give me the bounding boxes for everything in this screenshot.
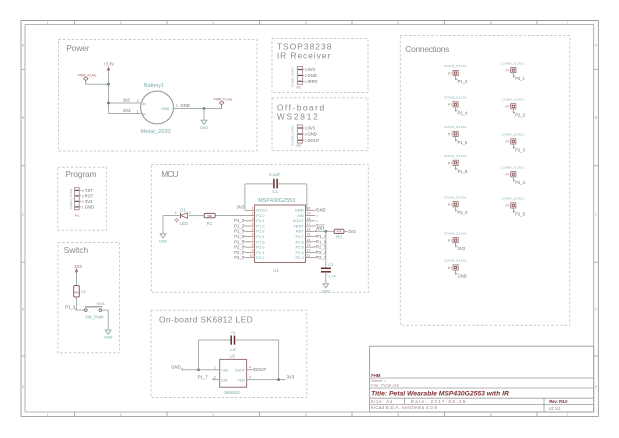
svg-text:XIN: XIN: [297, 213, 304, 218]
svg-text:RST: RST: [296, 229, 305, 234]
pin 9 U1 (P2.1): [245, 251, 255, 253]
svg-text:CONN_01X03: CONN_01X03: [291, 67, 295, 87]
wire P1.0 to R1: [215, 215, 245, 217]
svg-text:P2_2: P2_2: [515, 112, 525, 117]
svg-text:GND: GND: [295, 208, 304, 213]
svg-text:R1: R1: [207, 221, 213, 226]
op-amp U1 MSP430G2553: [255, 205, 306, 263]
svg-text:3: 3: [82, 195, 84, 199]
svg-text:P1.4: P1.4: [256, 234, 265, 239]
wire PWR_FLAG to +3.3V node: [86, 83, 109, 85]
svg-text:CONN_01X01: CONN_01X01: [502, 165, 525, 169]
pin 3 pad: [75, 195, 79, 197]
svg-text:C2: C2: [328, 262, 334, 267]
net label P1_7: [315, 235, 317, 237]
junction GND node: [203, 107, 206, 110]
wire to switch: [77, 309, 85, 311]
svg-text:6: 6: [490, 21, 492, 25]
section box On-board SK6812 LED: [151, 310, 307, 397]
svg-text:330: 330: [207, 214, 212, 218]
svg-text:DOUT: DOUT: [235, 368, 246, 372]
svg-text:2: 2: [120, 413, 122, 417]
svg-text:P1_2: P1_2: [234, 223, 244, 228]
svg-text:3V3: 3V3: [308, 126, 316, 131]
svg-text:1: 1: [137, 109, 139, 113]
svg-text:P2_3: P2_3: [515, 147, 525, 152]
svg-text:P1_7: P1_7: [316, 234, 326, 239]
svg-text:IR Receiver: IR Receiver: [277, 51, 331, 61]
pin 6 U1 (P1.4): [245, 236, 255, 238]
svg-text:+3.3V: +3.3V: [103, 61, 114, 66]
svg-text:GND: GND: [104, 336, 113, 340]
svg-text:P2_0: P2_0: [234, 245, 244, 250]
pin 1 stub P2_4: [512, 177, 514, 182]
junction +3.3V node: [107, 83, 110, 86]
svg-text:4: 4: [249, 366, 251, 370]
svg-text:DOUT: DOUT: [254, 367, 266, 372]
svg-text:CONN_01X01: CONN_01X01: [444, 64, 467, 68]
wire DVCC riser: [244, 184, 246, 210]
pin 1 pad: [298, 139, 302, 141]
pin 4 stub U2: [247, 369, 253, 371]
pin 10 U1 (P2.2): [245, 257, 255, 259]
wire C3 left riser: [198, 340, 200, 370]
svg-text:Connections: Connections: [405, 44, 449, 54]
net label P2_5: [513, 211, 515, 213]
pin 5 U1 (P1.3): [245, 230, 255, 232]
svg-text:4: 4: [305, 21, 307, 25]
svg-text:3V3: 3V3: [74, 264, 82, 269]
svg-text:IRRX: IRRX: [308, 79, 318, 84]
svg-text:GND: GND: [316, 208, 325, 213]
svg-text:P2_4: P2_4: [316, 250, 326, 255]
svg-text:12: 12: [307, 248, 311, 252]
svg-text:Size: A4: Size: A4: [371, 399, 393, 404]
pin 8 U1 (P2.0): [245, 246, 255, 248]
net label GND: [456, 273, 458, 275]
transistor U2 SK6812: [220, 359, 247, 387]
svg-text:3: 3: [249, 375, 251, 379]
svg-text:DOUT: DOUT: [308, 138, 320, 143]
svg-text:TST: TST: [85, 188, 93, 193]
pin 2 U1 (P1.0): [245, 215, 255, 217]
ground: [201, 120, 207, 124]
net label P2_3: [315, 256, 317, 258]
svg-text:3V3: 3V3: [85, 199, 93, 204]
net label P1_6: [456, 168, 458, 170]
svg-text:P?: P?: [448, 133, 452, 137]
svg-text:Date: 2017-06-25: Date: 2017-06-25: [411, 399, 467, 404]
pin 1 stub P2_0: [455, 207, 457, 212]
pin 13 U1 (P2.5): [306, 246, 316, 248]
svg-text:P1_3: P1_3: [234, 229, 244, 234]
svg-text:3: 3: [252, 217, 254, 221]
svg-text:P1_1: P1_1: [234, 218, 244, 223]
svg-text:P1.2: P1.2: [256, 223, 265, 228]
svg-text:CONN_01X01: CONN_01X01: [444, 231, 467, 235]
svg-text:2: 2: [252, 212, 254, 216]
svg-text:3: 3: [212, 413, 214, 417]
svg-text:P?: P?: [506, 204, 510, 208]
svg-text:3V3: 3V3: [308, 67, 316, 72]
capacitor C2 1nF: [321, 267, 331, 269]
svg-text:RST: RST: [316, 226, 325, 231]
svg-text:DVCC: DVCC: [256, 208, 267, 213]
svg-text:P3: P3: [297, 144, 301, 148]
svg-text:P2.0: P2.0: [256, 245, 265, 250]
svg-text:P?: P?: [448, 266, 452, 270]
svg-text:14: 14: [307, 238, 311, 242]
resistor R1 330: [204, 213, 215, 217]
net label RST: [315, 230, 317, 232]
svg-text:5: 5: [252, 227, 254, 231]
svg-text:P?: P?: [506, 105, 510, 109]
svg-text:File: Petal.sch: File: Petal.sch: [371, 383, 399, 388]
svg-text:PWR_FLAG: PWR_FLAG: [78, 74, 97, 78]
pin 12 U1 (P2.4): [306, 251, 316, 253]
pin 11 U1 (P2.3): [306, 257, 316, 259]
svg-text:1uF: 1uF: [229, 347, 236, 352]
net label 3V3: [456, 246, 458, 248]
net label P2_1: [243, 251, 245, 253]
wire R3 to 3V3: [344, 230, 348, 232]
net label P1_1: [243, 219, 245, 221]
svg-text:Metal_2032: Metal_2032: [141, 129, 172, 135]
svg-text:4: 4: [252, 222, 254, 226]
svg-text:P2_3: P2_3: [316, 255, 326, 260]
svg-text:CONN_01X01: CONN_01X01: [444, 96, 467, 100]
svg-text:MSP430G2553: MSP430G2553: [258, 198, 295, 204]
svg-text:15: 15: [307, 233, 311, 237]
pin 15 U1 (P1.7): [306, 236, 316, 238]
wire R1 to LED: [189, 215, 204, 217]
wire RST to C2: [325, 231, 327, 267]
pin 1 stub GND: [455, 270, 457, 275]
svg-text:On-board SK6812 LED: On-board SK6812 LED: [159, 315, 253, 325]
pin 2 pad: [298, 133, 302, 135]
net label P1_4: [456, 110, 458, 112]
svg-text:2: 2: [189, 211, 191, 215]
pin 1 stub P1_5: [455, 137, 457, 142]
svg-text:P2_5: P2_5: [316, 245, 326, 250]
svg-text:P1.7: P1.7: [295, 234, 304, 239]
pin 4 pad: [75, 189, 79, 191]
pin 2 stub: [303, 74, 305, 76]
svg-text:P?: P?: [506, 69, 510, 73]
resistor R3 47k: [334, 229, 344, 233]
svg-text:P1.3: P1.3: [256, 229, 265, 234]
pin 1 pad: [75, 206, 79, 208]
svg-text:CONN_01X01: CONN_01X01: [502, 133, 525, 137]
svg-text:P?: P?: [448, 203, 452, 207]
section box MCU: [151, 165, 368, 293]
svg-text:×: ×: [316, 214, 318, 218]
svg-text:13: 13: [307, 243, 311, 247]
svg-text:Switch: Switch: [64, 245, 89, 255]
svg-text:LED: LED: [180, 221, 188, 226]
wire GND to U2 pin1: [181, 369, 220, 371]
svg-text:8: 8: [252, 243, 254, 247]
svg-text:P?: P?: [506, 140, 510, 144]
net label P1_6: [315, 240, 317, 242]
svg-text:P2_1: P2_1: [515, 76, 525, 81]
pin 2 stub: [303, 133, 305, 135]
ground: [323, 284, 329, 288]
wire P1_7 to U2 pin2: [213, 379, 220, 381]
pin 2 pad: [75, 200, 79, 202]
wire LED to ground: [163, 215, 179, 217]
svg-text:P1_5: P1_5: [458, 140, 468, 145]
section box Program: [58, 167, 107, 230]
pin 14 U1 (P1.6): [306, 241, 316, 243]
pin 3 stub: [303, 69, 305, 71]
svg-text:Id: 1/1: Id: 1/1: [549, 406, 561, 411]
svg-text:P1_4: P1_4: [234, 234, 244, 239]
svg-text:GND: GND: [308, 73, 317, 78]
ground: [160, 234, 166, 238]
pin 7 U1 (P1.5): [245, 241, 255, 243]
svg-text:9: 9: [252, 248, 254, 252]
svg-text:1: 1: [82, 206, 84, 210]
pin 1 stub P2_3: [512, 144, 514, 149]
svg-text:R2: R2: [81, 290, 86, 294]
wire C3 right riser: [235, 339, 278, 341]
svg-text:CONN_01X03: CONN_01X03: [291, 125, 295, 145]
svg-text:P2_2: P2_2: [234, 255, 244, 260]
wire battery pin 3 GND: [173, 108, 221, 110]
svg-text:GND: GND: [181, 103, 190, 108]
svg-text:CONN_01X01: CONN_01X01: [502, 197, 525, 201]
svg-text:GND: GND: [308, 132, 317, 137]
svg-text:4: 4: [82, 189, 84, 193]
svg-text:P2_1: P2_1: [234, 250, 244, 255]
wire to battery pin 2: [109, 102, 141, 104]
wire RST: [315, 230, 334, 232]
pin 1 stub P1_2: [455, 76, 457, 81]
svg-text:P1.1: P1.1: [256, 218, 265, 223]
pin 3 pad: [298, 69, 302, 71]
pin 20 U1 (GND): [306, 209, 316, 211]
svg-text:3v: 3v: [142, 113, 146, 117]
wire vertical to battery pins: [108, 84, 110, 113]
svg-text:1 nF: 1 nF: [328, 274, 337, 279]
svg-text:6: 6: [490, 413, 492, 417]
svg-text:P1.0: P1.0: [256, 213, 265, 218]
net label DOUT: [253, 368, 255, 370]
svg-text:P2_5: P2_5: [515, 211, 525, 216]
svg-text:SK6812: SK6812: [224, 390, 240, 395]
pin 1 stub P1_4: [455, 107, 457, 112]
section box Switch: [58, 243, 120, 353]
svg-text:Battery1: Battery1: [144, 83, 164, 89]
svg-text:P2.3: P2.3: [295, 255, 304, 260]
svg-text:VSS: VSS: [221, 368, 229, 372]
svg-text:MCU: MCU: [161, 169, 178, 179]
net label P2_3: [513, 147, 515, 149]
svg-text:P1_4: P1_4: [458, 110, 468, 115]
net label P2_5: [315, 246, 317, 248]
net label P2_0: [243, 246, 245, 248]
svg-text:P?: P?: [448, 162, 452, 166]
svg-text:P?: P?: [448, 103, 452, 107]
svg-text:TEST: TEST: [293, 223, 304, 228]
svg-text:3V3: 3V3: [458, 246, 466, 251]
svg-text:P1_3: P1_3: [65, 305, 75, 310]
net label P1_3: [75, 308, 77, 310]
svg-text:P2: P2: [297, 85, 301, 89]
svg-text:7: 7: [567, 413, 569, 417]
svg-text:P1_5: P1_5: [234, 239, 244, 244]
svg-text:C1: C1: [272, 189, 278, 194]
svg-text:P2.1: P2.1: [256, 250, 265, 255]
svg-text:CONN_01X04: CONN_01X04: [69, 189, 73, 209]
net label P2_1: [513, 76, 515, 78]
svg-text:10: 10: [250, 254, 254, 258]
svg-text:Power: Power: [66, 43, 90, 53]
svg-text:WS2812: WS2812: [277, 111, 320, 121]
section box Power: [59, 40, 258, 152]
net label GND: [315, 209, 317, 211]
svg-text:Title: Petal Wearable MSP430G2: Title: Petal Wearable MSP430G2553 with I…: [371, 390, 509, 397]
net label P2_2: [243, 256, 245, 258]
svg-text:5: 5: [397, 413, 399, 417]
svg-text:CONN_01X01: CONN_01X01: [502, 61, 525, 65]
svg-text:GND: GND: [85, 205, 94, 210]
svg-text:0.1uF: 0.1uF: [269, 172, 281, 177]
net label P2_4: [315, 251, 317, 253]
svg-text:PWR_FLAG: PWR_FLAG: [214, 97, 233, 101]
title block: [370, 346, 594, 412]
wire 3V3 to R2: [76, 274, 78, 286]
svg-text:P2.5: P2.5: [295, 245, 304, 250]
svg-text:4: 4: [305, 413, 307, 417]
svg-text:6: 6: [252, 233, 254, 237]
pin 2 stub: [79, 200, 81, 202]
svg-text:U2: U2: [230, 353, 236, 358]
svg-text:2: 2: [214, 375, 216, 379]
svg-text:C3: C3: [230, 330, 236, 335]
junction battery branch: [107, 102, 110, 105]
wire resistor to switch node: [76, 297, 78, 310]
pin 17 U1 (TEST): [306, 225, 316, 227]
svg-text:Program: Program: [65, 169, 96, 179]
svg-text:3: 3: [176, 104, 178, 108]
svg-text:×: ×: [316, 219, 318, 223]
net label P2_0: [456, 210, 458, 212]
svg-text:P2.4: P2.4: [295, 250, 304, 255]
svg-text:7: 7: [567, 21, 569, 25]
svg-text:VDD: VDD: [238, 378, 246, 382]
svg-text:20: 20: [307, 206, 311, 210]
wire switch to ground: [102, 309, 109, 311]
pin 4 stub: [79, 189, 81, 191]
pin 1 U1 (DVCC): [245, 209, 255, 211]
pin 3 stub: [79, 195, 81, 197]
svg-text:GND: GND: [322, 289, 331, 293]
svg-text:3: 3: [212, 21, 214, 25]
pin 2 pad: [298, 74, 302, 76]
svg-text:47k: 47k: [337, 230, 342, 234]
net label P1_2: [243, 224, 245, 226]
wire C2 to ground: [325, 272, 327, 284]
svg-text:P1_6: P1_6: [316, 239, 326, 244]
svg-text:P1.6: P1.6: [295, 239, 304, 244]
switch SW1 SW_Push: [85, 309, 88, 312]
pin 18 U1 (XOUT): [306, 220, 316, 222]
svg-text:19: 19: [307, 212, 311, 216]
svg-text:3V3: 3V3: [287, 375, 295, 380]
svg-text:SW1: SW1: [97, 301, 105, 306]
svg-text:P1.5: P1.5: [256, 239, 265, 244]
svg-text:3v3: 3v3: [123, 98, 130, 103]
svg-text:CONN_01X01: CONN_01X01: [502, 98, 525, 102]
svg-text:P?: P?: [506, 173, 510, 177]
pin 1 pad: [298, 80, 302, 82]
svg-text:CONN_01X01: CONN_01X01: [444, 195, 467, 199]
svg-text:P1_6: P1_6: [458, 169, 468, 174]
pin 3 U1 (P1.1): [245, 220, 255, 222]
svg-text:11: 11: [307, 254, 311, 258]
svg-text:P1_2: P1_2: [458, 79, 468, 84]
svg-text:DIN: DIN: [221, 378, 228, 382]
svg-text:P2_4: P2_4: [515, 180, 525, 185]
junction VDD node: [277, 378, 280, 381]
pin 1 stub 3V3: [455, 243, 457, 248]
svg-text:GND: GND: [161, 107, 170, 111]
pin 1 stub P2_2: [512, 109, 514, 114]
section box TSOP38238 IR Receiver: [272, 39, 368, 93]
wire to ground symbol: [203, 109, 205, 120]
section box Connections: [400, 36, 570, 326]
svg-text:P?: P?: [448, 72, 452, 76]
svg-text:3V3: 3V3: [123, 108, 131, 113]
svg-text:3v: 3v: [142, 102, 146, 106]
pin 16 U1 (RST): [306, 230, 316, 232]
net label P1_4: [243, 235, 245, 237]
svg-text:7: 7: [252, 238, 254, 242]
net label P2_4: [513, 180, 515, 182]
svg-text:U1: U1: [273, 268, 279, 273]
svg-text:47k: 47k: [74, 290, 79, 294]
svg-text:1: 1: [47, 413, 49, 417]
ground: [105, 330, 111, 334]
pin 3 pad: [298, 127, 302, 129]
svg-text:CONN_01X01: CONN_01X01: [444, 125, 467, 129]
wire to battery pin 1: [109, 113, 141, 115]
svg-text:RST: RST: [85, 194, 94, 199]
svg-text:GND: GND: [200, 126, 209, 130]
svg-text:GND: GND: [159, 239, 168, 243]
svg-text:CONN_01X01: CONN_01X01: [444, 259, 467, 263]
svg-text:3V3: 3V3: [237, 205, 245, 210]
svg-text:2: 2: [137, 99, 139, 103]
pin 19 U1 (XIN): [306, 215, 316, 217]
net label P1_2: [456, 79, 458, 81]
net label P1_5: [456, 139, 458, 141]
pin 1 stub: [303, 139, 305, 141]
svg-text:1: 1: [47, 21, 49, 25]
LED D1: [180, 213, 182, 219]
section box Off-board WS2812: [272, 98, 368, 151]
net label P1_5: [243, 240, 245, 242]
pin 1 stub P1_6: [455, 165, 457, 170]
svg-text:P1_7: P1_7: [198, 375, 208, 380]
svg-text:D1: D1: [180, 208, 186, 213]
wire U2 pin3 to 3V3: [247, 379, 286, 381]
pin 1 stub: [79, 206, 81, 208]
net label P1_3: [243, 230, 245, 232]
pin 1 stub: [303, 80, 305, 82]
